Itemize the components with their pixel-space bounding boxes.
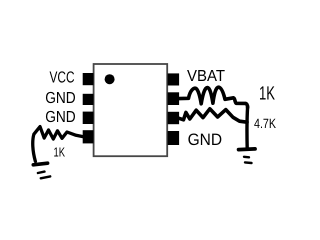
pin 2 (GND) [83,94,94,105]
ground (right) bar [239,147,255,152]
svg-text:GND: GND [188,131,223,149]
resistor R3 4.7K (right bottom, hand-drawn zigzag from pin 6) [179,109,247,122]
svg-text:1K: 1K [54,145,66,160]
pin 6 [168,112,180,124]
resistor R2 1K (right top, hand-drawn loops from pin 7) [179,87,248,107]
svg-text:GND: GND [45,90,75,107]
pin 7 [168,92,180,105]
ground (left) dash 2 [41,176,50,178]
svg-text:4.7K: 4.7K [254,116,276,131]
ground (left) dash 1 [38,172,45,173]
pin 3 (GND) [83,112,94,124]
svg-text:1K: 1K [259,84,275,105]
pin 8 (VBAT) [168,73,180,85]
pin 1 indicator dot [105,74,115,84]
pin 5 (GND) [168,131,180,145]
pin 4 [83,130,94,143]
svg-text:GND: GND [45,109,75,126]
ground (left) bar [33,163,47,165]
IC U1 body [94,64,168,156]
ground (right) dash 2 [245,161,252,164]
svg-text:VBAT: VBAT [187,68,225,85]
ground (right) dash 1 [244,156,249,159]
svg-text:VCC: VCC [50,69,75,86]
pin 1 (VCC) [83,73,94,85]
wire (vertical, joins R2 and R3 to ground) [245,107,249,149]
resistor R1 1K (left, hand-drawn zigzag from pin 4) [33,127,89,162]
